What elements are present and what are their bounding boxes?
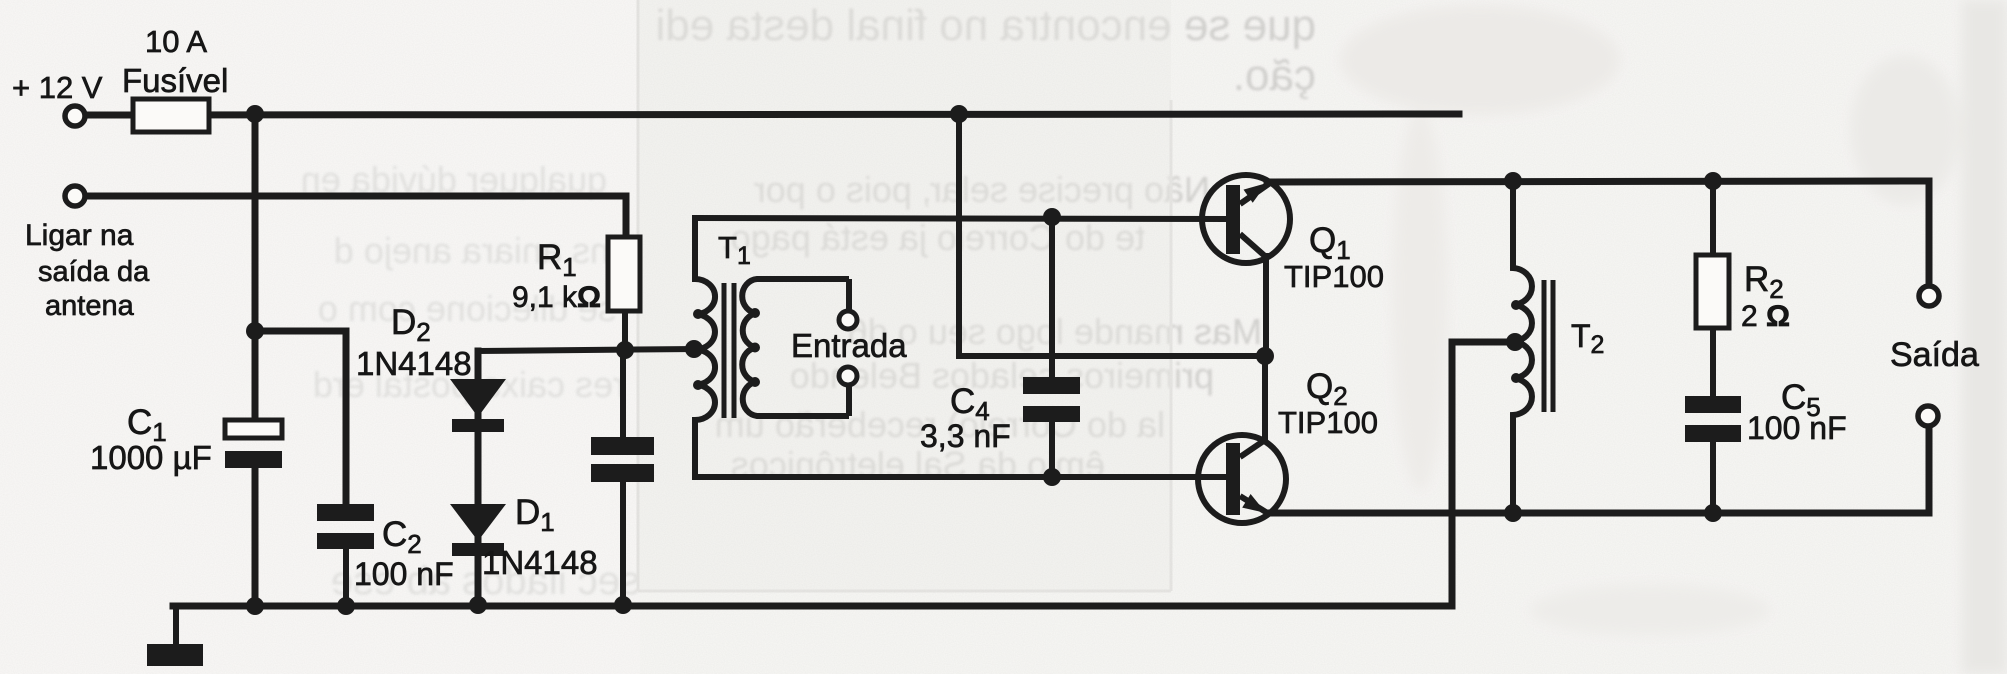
node T2 bottom bbox=[1504, 504, 1522, 522]
T1 secondary winding bbox=[742, 279, 849, 416]
node R1 bottom bbox=[616, 341, 634, 359]
svg-text:1N4148: 1N4148 bbox=[356, 345, 472, 382]
wire ground stub bbox=[173, 606, 179, 645]
node C4 bottom bbox=[1043, 468, 1061, 486]
node gnd C2 bbox=[337, 597, 355, 615]
svg-text:Entrada: Entrada bbox=[791, 327, 907, 364]
transistor Q1 TIP100 bbox=[1202, 175, 1290, 263]
resistor R1 bbox=[608, 237, 640, 311]
terminal +12V bbox=[65, 106, 85, 126]
wire C3 stem lower bbox=[620, 480, 626, 606]
node fuse-C1 bbox=[246, 105, 264, 123]
wire C5 stem lower bbox=[1710, 439, 1716, 513]
node gnd C3 bbox=[614, 596, 632, 614]
node +12 drop bbox=[950, 105, 968, 123]
svg-text:+ 12 V: + 12 V bbox=[12, 70, 103, 105]
wire C3 stem upper bbox=[620, 350, 626, 440]
wire D2/D1 chain vertical bbox=[475, 351, 482, 605]
terminal saida bottom bbox=[1918, 406, 1938, 426]
svg-text:100 nF: 100 nF bbox=[1747, 410, 1847, 446]
fuse F1 10A bbox=[133, 99, 209, 132]
wire entrada top lead bbox=[846, 279, 852, 311]
wire Q1 emitter line to output bbox=[1267, 181, 1929, 287]
svg-text:Fusível: Fusível bbox=[122, 62, 228, 99]
svg-text:9,1 kΩ: 9,1 kΩ bbox=[512, 281, 601, 314]
wire T1 bottom lead to Q2 base bbox=[695, 474, 1226, 480]
wire R2 to C5 bbox=[1710, 326, 1716, 399]
node C4 top bbox=[1043, 208, 1061, 226]
wire antenna input to R1 bbox=[85, 196, 626, 239]
faint reverse-page artifacts (decorative) bbox=[301, 1, 1316, 603]
terminal antenna bbox=[65, 186, 85, 206]
capacitor C5 bbox=[1685, 396, 1741, 442]
transformer T1 bbox=[695, 218, 849, 477]
regional paper tones (decorative) bbox=[0, 0, 640, 674]
T1 winding cusp nubs bbox=[693, 308, 760, 390]
T2 winding cusp nubs bbox=[1511, 300, 1521, 383]
wire C4 stem lower bbox=[1049, 419, 1055, 477]
wire C2 branch bbox=[255, 331, 346, 506]
terminal entrada top bbox=[839, 311, 857, 329]
wire entrada bottom lead bbox=[846, 385, 852, 416]
svg-text:TIP100: TIP100 bbox=[1284, 259, 1384, 294]
svg-text:1000 µF: 1000 µF bbox=[90, 439, 212, 476]
terminal saida top bbox=[1919, 286, 1939, 306]
svg-text:2 Ω: 2 Ω bbox=[1741, 300, 1790, 333]
svg-text:saída da: saída da bbox=[38, 256, 150, 288]
node T2 top bbox=[1504, 172, 1522, 190]
wire T2 center-tap riser bbox=[1452, 342, 1514, 606]
wire Q1 collector drop bbox=[1263, 256, 1269, 356]
resistor R2 bbox=[1696, 255, 1729, 328]
wire R2 stem upper bbox=[1710, 181, 1716, 257]
capacitor C3 bbox=[591, 437, 654, 482]
wire C4 stem upper bbox=[1049, 217, 1055, 380]
wire C2 stem lower bbox=[343, 547, 349, 606]
wire ground bottom rail bbox=[173, 603, 1452, 610]
wire T1 top lead to Q1 base bbox=[695, 218, 1226, 219]
capacitor C2 bbox=[317, 504, 374, 549]
node collectors bbox=[1256, 347, 1274, 365]
svg-text:Saída: Saída bbox=[1890, 336, 1979, 374]
wire Q2 collector riser bbox=[1262, 356, 1268, 441]
T1 primary winding bbox=[695, 218, 715, 477]
terminal entrada bottom bbox=[839, 367, 857, 385]
transformer T2 bbox=[1513, 182, 1553, 512]
T2 primary winding bbox=[1513, 182, 1532, 512]
svg-text:100 nF: 100 nF bbox=[354, 556, 454, 592]
node T1 tap bbox=[685, 340, 703, 358]
wire C1 branch vertical bbox=[252, 115, 259, 421]
node C5 bottom bbox=[1704, 504, 1722, 522]
diode D1 1N4148 bbox=[450, 504, 506, 556]
T2 core bbox=[1542, 280, 1547, 412]
capacitor C4 bbox=[1023, 377, 1080, 422]
svg-text:TIP100: TIP100 bbox=[1278, 405, 1378, 440]
wire Q2 emitter line to output bbox=[1268, 426, 1929, 513]
svg-text:10 A: 10 A bbox=[145, 24, 207, 59]
node gnd D1 bbox=[469, 596, 487, 614]
node gnd C1 bbox=[246, 597, 264, 615]
svg-text:antena: antena bbox=[45, 290, 135, 322]
node C1-C2 branch bbox=[246, 322, 264, 340]
capacitor C1 (electrolytic) bbox=[225, 420, 282, 468]
svg-text:3,3 nF: 3,3 nF bbox=[920, 418, 1011, 454]
transistor Q2 TIP100 bbox=[1198, 435, 1286, 523]
ground bbox=[147, 644, 203, 666]
svg-text:1N4148: 1N4148 bbox=[482, 544, 598, 581]
svg-text:Ligar na: Ligar na bbox=[25, 219, 134, 252]
wire C1 stem lower bbox=[252, 466, 259, 606]
wire +12V drop to collectors bbox=[959, 114, 1266, 356]
node R2 top bbox=[1704, 172, 1722, 190]
T1 core bbox=[722, 283, 727, 418]
wire +12V top rail bbox=[85, 114, 1459, 115]
node T2 tap bbox=[1506, 333, 1524, 351]
faint figure border from reverse page (decorative) bbox=[637, 0, 640, 591]
wire bias line D2 to T1 tap bbox=[478, 349, 695, 351]
diode D2 1N4148 bbox=[450, 379, 506, 432]
wire R1 bottom to bias node bbox=[622, 310, 628, 350]
